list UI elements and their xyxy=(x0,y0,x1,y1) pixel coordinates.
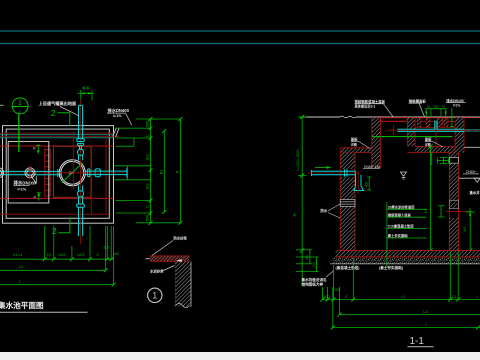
svg-text:500: 500 xyxy=(146,215,150,221)
note leader xyxy=(326,271,334,278)
detail corner white arrow xyxy=(176,259,182,262)
svg-text:1: 1 xyxy=(152,291,157,301)
sump level red line xyxy=(446,211,472,213)
grating posts xyxy=(418,118,449,127)
svg-text:250: 250 xyxy=(434,105,439,109)
svg-text:C1: C1 xyxy=(47,253,52,257)
svg-text:具体做法见S-1: 具体做法见S-1 xyxy=(354,104,376,109)
svg-text:防水: 防水 xyxy=(321,208,328,213)
svg-text:详图: 详图 xyxy=(351,141,357,146)
svg-text:100: 100 xyxy=(113,252,119,256)
left dim cross ticks xyxy=(298,117,307,176)
discharge pipe to right wall (cyan) xyxy=(85,168,127,177)
svg-text:L: L xyxy=(477,295,479,299)
sleeve 1 in right wall xyxy=(449,158,458,164)
sump level green marks xyxy=(466,208,475,216)
svg-text:2: 2 xyxy=(51,108,56,118)
svg-text:L: L xyxy=(425,323,427,327)
svg-text:L3: L3 xyxy=(19,265,23,269)
leader A line xyxy=(355,104,394,117)
pump impeller diagonal xyxy=(62,163,83,183)
sleeve2 dim xyxy=(438,206,445,217)
suction pipe red centerline xyxy=(0,172,57,174)
svg-text:b1/2: b1/2 xyxy=(59,253,66,257)
gravel bed bottom line xyxy=(330,263,480,265)
leader line to standpipe xyxy=(60,107,79,116)
svg-text:钢格栅盖板: 钢格栅盖板 xyxy=(409,98,427,103)
svg-text:h=1200~2500: h=1200~2500 xyxy=(296,149,300,170)
waterproof sleeve in left wall xyxy=(340,200,355,207)
section bottom dim extensions xyxy=(323,252,459,328)
foot valve circle xyxy=(25,166,35,181)
red hatch ladder (wall hatch strip) xyxy=(45,148,50,196)
svg-text:预制钢筋混凝土盖板: 预制钢筋混凝土盖板 xyxy=(355,99,386,104)
pit label underline xyxy=(14,185,30,187)
svg-text:H1: H1 xyxy=(424,209,428,214)
svg-text:(素混凝土垫层): (素混凝土垫层) xyxy=(336,265,361,270)
plan title underline xyxy=(0,311,88,313)
grating dims (green) xyxy=(426,109,447,117)
section dim chain B xyxy=(340,314,480,316)
vertical dim chain 1 xyxy=(150,119,152,223)
right inlet red centerline + cross xyxy=(388,121,479,146)
pit box xyxy=(8,142,49,204)
svg-text:C1: C1 xyxy=(452,295,457,299)
bottom dim chain B xyxy=(0,269,106,271)
sleeve 2 in right wall xyxy=(449,201,458,209)
ground line xyxy=(300,116,341,118)
shaft label leader xyxy=(359,142,370,149)
svg-text:L3: L3 xyxy=(423,310,427,314)
leader B line xyxy=(419,103,425,117)
svg-text:400: 400 xyxy=(82,86,90,91)
svg-text:防水砂浆: 防水砂浆 xyxy=(174,236,188,241)
half foot-valve circle at left edge xyxy=(0,168,4,178)
trough inner dims xyxy=(432,153,449,166)
right slab soffit line xyxy=(464,146,480,148)
vertical dim chain 2 xyxy=(163,131,165,212)
inlet drop dim xyxy=(367,177,371,191)
chain A labels xyxy=(13,246,119,257)
svg-text:C: C xyxy=(96,253,99,257)
inlet pipe (cyan) xyxy=(312,169,364,190)
interior finish list (4 lines) xyxy=(388,204,415,238)
svg-text:C: C xyxy=(146,134,150,137)
detail left tick arrow xyxy=(145,258,150,260)
inlet text underline xyxy=(363,168,380,170)
grating soffit red line xyxy=(415,126,455,128)
right dim extension stubs xyxy=(116,119,181,223)
svg-text:H2: H2 xyxy=(463,227,467,232)
bottom dim chain A xyxy=(0,258,114,260)
svg-text:B/2: B/2 xyxy=(146,183,150,188)
svg-text:B1: B1 xyxy=(160,170,164,174)
svg-text:盖板: 盖板 xyxy=(425,137,432,142)
svg-text:上设通气帽高出地面: 上设通气帽高出地面 xyxy=(39,100,78,107)
svg-text:B/2: B/2 xyxy=(146,154,150,159)
H2 dim line xyxy=(469,212,471,251)
water level symbol in shaft xyxy=(401,172,407,179)
svg-text:集水坑做法详见: 集水坑做法详见 xyxy=(301,277,328,282)
pump red centerlines xyxy=(58,132,88,189)
water level symbol right xyxy=(474,178,480,182)
left big dim line h xyxy=(301,117,303,286)
pipe break symbol top-right of plan xyxy=(113,128,119,137)
ground break squiggle xyxy=(340,116,356,118)
bottom status bar xyxy=(0,352,480,360)
svg-text:100: 100 xyxy=(324,295,330,299)
svg-text:H: H xyxy=(292,213,297,216)
cover slab red outline xyxy=(381,118,408,122)
center line through slab xyxy=(386,238,388,268)
detail leader line xyxy=(152,241,173,256)
bottom slab red lines xyxy=(336,250,480,257)
bottom-left note text xyxy=(301,277,328,287)
section title underline xyxy=(408,346,434,348)
svg-text:水泥砂浆: 水泥砂浆 xyxy=(149,268,164,273)
svg-text:b2/2: b2/2 xyxy=(78,253,85,257)
suction pipe horizontal (cyan) xyxy=(0,169,60,177)
trough label text xyxy=(425,137,432,147)
svg-text:20厚水泥砂浆面层: 20厚水泥砂浆面层 xyxy=(388,204,415,209)
svg-text:(素土夯实基础): (素土夯实基础) xyxy=(379,265,404,270)
gravel bed speckle band xyxy=(333,258,480,264)
trough bottom slab xyxy=(415,146,455,152)
svg-text:钢筋混凝土底板: 钢筋混凝土底板 xyxy=(388,212,412,217)
top leader text A xyxy=(354,99,386,109)
svg-text:C10素混凝土垫层: C10素混凝土垫层 xyxy=(388,224,415,229)
trough left wall hatch xyxy=(407,118,415,129)
svg-text:素土夯实基础: 素土夯实基础 xyxy=(388,233,408,238)
detail leader 2 xyxy=(162,266,175,272)
trough label leader xyxy=(433,142,443,147)
svg-text:500: 500 xyxy=(146,121,150,127)
upper right wall hatch xyxy=(455,118,464,153)
svg-text:i=1%: i=1% xyxy=(113,114,122,118)
svg-text:400: 400 xyxy=(365,182,369,188)
section dim chain A xyxy=(323,299,480,301)
svg-text:100: 100 xyxy=(104,246,110,250)
shaft label text xyxy=(351,137,358,147)
bottom dim chain C xyxy=(0,284,114,286)
slab top red line xyxy=(372,117,480,119)
svg-text:详图: 详图 xyxy=(425,141,431,146)
red channel band lines across plan xyxy=(0,133,114,214)
svg-text:2: 2 xyxy=(52,226,57,236)
bottom dim extension lines xyxy=(45,226,114,285)
inlet pipe red centerline xyxy=(308,172,358,174)
pump circle P1 xyxy=(59,160,85,186)
axis line 1 (green vertical) xyxy=(18,114,20,152)
H1 dim line xyxy=(430,147,432,251)
pipe exit bracket (right of plan) xyxy=(115,166,151,180)
vertical dim chain 3 xyxy=(179,119,181,223)
lower right wall hatch xyxy=(449,153,458,158)
leader text: drain DN400 xyxy=(108,107,130,118)
svg-text:集水井: 集水井 xyxy=(469,190,480,195)
top leader text C xyxy=(446,98,463,108)
trough depth dim xyxy=(450,108,454,127)
svg-text:i=1%: i=1% xyxy=(18,187,27,191)
svg-text:集水池平面图: 集水池平面图 xyxy=(0,300,44,310)
plan outer wall rectangle xyxy=(3,126,114,224)
section dim chain C xyxy=(333,327,480,329)
svg-text:L1: L1 xyxy=(401,295,405,299)
finish list underlines (green) xyxy=(387,202,427,268)
shaft wall A hatch xyxy=(372,118,381,168)
right inlet pipe continuation (dim) xyxy=(464,130,480,132)
svg-text:L: L xyxy=(19,280,21,284)
svg-text:R: R xyxy=(33,147,36,151)
flow arrow xyxy=(315,167,329,169)
shaft green level line xyxy=(372,136,453,138)
svg-text:DN65~150: DN65~150 xyxy=(364,165,380,169)
bottom-left small dims xyxy=(296,250,319,272)
detail vertical hatch column xyxy=(175,262,191,307)
buried roof slab hatch xyxy=(341,148,372,153)
svg-text:1: 1 xyxy=(18,100,22,107)
bottom slab hatch xyxy=(336,250,480,257)
top border line 2 xyxy=(0,43,480,45)
water line right chamber xyxy=(459,177,480,179)
discharge standpipe (vertical cyan) xyxy=(77,105,85,236)
dim 400 above standpipe xyxy=(78,90,95,101)
left edge tick xyxy=(0,104,4,106)
discharge pipe red centerline xyxy=(88,172,125,174)
pit pipe label DN100 xyxy=(14,180,37,192)
svg-text:300: 300 xyxy=(305,255,309,260)
svg-text:R: R xyxy=(34,196,37,200)
drop pipe red centerline xyxy=(357,171,359,194)
discharge standpipe red centerline xyxy=(80,100,82,245)
level mark R lower xyxy=(37,193,41,201)
sub-slab labels xyxy=(336,265,404,270)
detail horizontal hatch band xyxy=(150,256,189,262)
svg-text:C: C xyxy=(146,205,150,208)
svg-text:b1-L1: b1-L1 xyxy=(13,253,22,257)
svg-text:盖板: 盖板 xyxy=(351,137,358,142)
svg-text:结构图纸大样: 结构图纸大样 xyxy=(301,281,324,286)
axis bubble 1 xyxy=(12,98,28,114)
leader line for DN400 xyxy=(107,113,132,125)
svg-text:100: 100 xyxy=(334,288,340,292)
right inlet pipe (cyan) xyxy=(398,121,465,132)
pump base red rectangle xyxy=(54,146,92,197)
slab soffit red line xyxy=(381,120,456,122)
level mark R upper xyxy=(36,145,40,154)
svg-text:1-1: 1-1 xyxy=(410,336,425,347)
svg-text:150: 150 xyxy=(312,262,316,267)
svg-text:C: C xyxy=(345,295,348,299)
ground line right part xyxy=(356,116,480,118)
top border line 1 xyxy=(0,30,480,32)
suction header pipe (dark red+teal) across plan top xyxy=(0,133,119,138)
svg-text:i=1%: i=1% xyxy=(453,104,461,108)
slope triangle symbol xyxy=(31,176,37,184)
sleeve1 dim xyxy=(440,158,447,164)
detail bottom break squiggle xyxy=(176,304,190,308)
chain 1 labels xyxy=(146,121,150,221)
tank left wall hatch xyxy=(340,153,355,170)
detail bubble 1 xyxy=(148,288,162,302)
svg-text:排水DN100: 排水DN100 xyxy=(446,98,463,103)
